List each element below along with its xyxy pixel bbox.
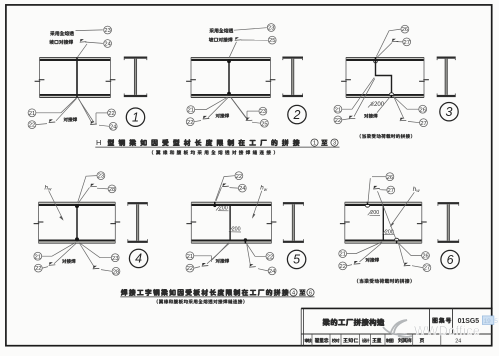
svg-text:27: 27 [404,40,410,46]
detail 1 note: full-penetration butt weld [49,31,73,44]
label butt weld detail3 [364,114,377,118]
callout 28 top [108,185,116,193]
svg-text:22: 22 [340,264,346,270]
dimension 200 mid detail6 [382,229,394,235]
callout 24 top detail5 [238,184,246,192]
svg-text:22: 22 [236,174,242,180]
detail 3 staggered web splice [374,57,394,97]
caption row 2: welded I-beam factory splices 4 to 6 [120,289,314,297]
detail 1 bottom weld symbols [49,119,97,124]
callout 26 top detail6 [386,173,394,181]
detail number 3 [440,103,458,121]
svg-text:23: 23 [98,174,104,180]
detail 2 note: full-penetration butt weld [209,28,233,41]
svg-text:23: 23 [260,109,266,115]
detail 6 I-section view [438,202,460,243]
title block outline [301,308,492,345]
svg-text:1: 1 [132,111,139,125]
svg-text:24: 24 [110,124,116,130]
svg-text:23: 23 [112,256,118,262]
detail 5 break marks [186,222,276,224]
detail number 4 [129,249,147,267]
detail 5 top weld symbol [222,184,229,187]
callout 24 [104,40,112,48]
detail 1 I-section view [124,57,147,98]
detail 2 top weld symbol [235,37,242,40]
svg-text:26: 26 [402,27,408,33]
dimension 200 mid detail5 [229,227,241,233]
watermark swoosh [383,320,412,337]
svg-text:22: 22 [187,266,193,272]
svg-text:21: 21 [187,254,193,260]
detail 6 bottom weld symbols [354,261,411,266]
callout 24 bottom right detail5 [268,267,276,275]
svg-text:19: 19 [484,318,492,325]
detail number 1 [126,108,144,126]
svg-text:23: 23 [268,26,274,32]
dimension 200 top detail6 [368,210,380,216]
label butt weld detail4 [62,259,75,263]
detail 5 bottom leaders [194,243,268,271]
svg-text:26: 26 [422,254,428,260]
svg-text:26: 26 [420,107,426,113]
detail 6 web splice line [382,205,384,240]
label hw detail5 [252,185,268,219]
svg-text:22: 22 [187,120,193,126]
svg-text:4: 4 [292,291,295,297]
callout 23 top detail4 [97,172,105,180]
callout 22 top detail5 [235,172,243,180]
detail 1 bottom leaders [36,98,109,126]
svg-text:1: 1 [313,141,316,147]
detail 1 top weld symbol [80,39,87,42]
svg-text:5: 5 [494,318,498,325]
svg-text:3: 3 [333,141,336,147]
detail 6 top flange splice with weld access arc [365,202,369,207]
svg-text:27: 27 [424,266,430,272]
detail 2 break marks [186,80,275,82]
detail 1 break marks [35,80,116,82]
svg-text:WWDoffice: WWDoffice [414,324,480,338]
detail 1 beam elevation [40,57,111,97]
detail 6 top leaders [368,177,396,240]
detail 3 bottom weld symbols [349,116,407,121]
callout 23 bottom detail4 [111,254,119,262]
detail number 6 [441,250,459,268]
callout 22 detail4 [34,264,42,272]
label butt weld [64,117,77,121]
svg-text:27: 27 [420,121,426,127]
detail 4 I-section view [127,202,147,243]
detail 6 top weld symbol [373,186,380,189]
svg-text:21: 21 [29,111,35,117]
svg-text:21: 21 [335,107,341,113]
detail 4 beam elevation [39,202,116,243]
svg-text:24: 24 [269,269,275,275]
svg-text:24: 24 [104,42,110,48]
label atlas number [432,318,451,324]
callout 25 top [268,36,276,44]
detail 4 top weld symbol [90,184,97,187]
svg-text:25: 25 [269,38,275,44]
svg-text:23: 23 [104,28,110,34]
svg-text:22: 22 [35,266,41,272]
label butt weld detail6 [366,258,379,262]
detail 4 bottom weld symbols [49,262,100,269]
svg-text:22: 22 [267,254,273,260]
svg-text:28: 28 [113,269,119,275]
callout 23 [104,26,112,34]
svg-text:H: H [96,138,101,147]
svg-text:6: 6 [309,291,312,297]
callout 26 bottom detail6 [422,252,430,260]
svg-text:27: 27 [388,188,394,194]
svg-text:2: 2 [293,108,301,122]
svg-text:28: 28 [109,187,115,193]
svg-text:22: 22 [335,118,341,124]
detail 3 top leaders [376,29,402,57]
detail 5 bottom weld symbols [202,263,256,267]
detail 2 top leaders [229,28,267,58]
detail 4 bottom leaders [42,242,112,271]
caption row 1: H-beam factory splices 1 to 3 [95,138,339,147]
detail 3 top weld symbol [392,39,399,42]
label butt weld detail5 [216,259,229,263]
svg-text:25: 25 [261,121,267,127]
detail 6 bottom flange splice with weld access arc [394,238,398,243]
callout 21 detail3 [334,105,342,113]
detail 2 beam elevation [191,57,271,97]
detail 2 web splice weld line with end dots [227,59,231,95]
detail 3 break marks [341,80,429,82]
callout 27 top [403,38,411,46]
detail 6 break marks [340,222,427,224]
svg-text:24: 24 [455,338,461,344]
title block bottom row labels and names [305,338,462,344]
callout 23 detail2 [267,24,275,32]
svg-text:4: 4 [135,252,142,266]
label hw detail6 [390,186,421,227]
detail 1 top leaders [76,30,103,58]
callout 21 detail2 [187,106,195,114]
detail number 5 [287,250,305,268]
callout 22 detail3 [334,116,342,124]
detail 5 top flange splice tick [213,202,216,207]
svg-text:26: 26 [387,175,393,181]
blue selection highlight [482,316,498,325]
svg-text:21: 21 [35,254,41,260]
svg-text:6: 6 [447,253,454,267]
detail 3 bottom leaders [342,78,419,123]
svg-text:5: 5 [293,253,300,267]
svg-text:3: 3 [446,105,453,119]
callout 26 top [401,25,409,33]
callout 21 detail4 [34,252,42,260]
detail 5 web splice line [229,205,231,240]
title: factory splice construction of beams [323,319,384,326]
detail 3 I-section view [437,57,456,98]
svg-text:22: 22 [29,123,35,129]
dimension >=200 [368,101,385,108]
callout 27 bottom detail6 [423,264,431,272]
callout 21 detail5 [186,252,194,260]
callout 27 top detail6 [387,186,395,194]
callout 27 bottom [420,119,428,127]
callout 26 bottom [419,105,427,113]
callout 24 bottom right [109,122,117,130]
callout 21 [28,109,36,117]
detail 4 web splice weld line with dots [75,204,79,241]
callout 23 bottom right detail2 [259,107,267,115]
svg-text:21: 21 [188,108,194,114]
svg-text:21: 21 [340,252,346,258]
detail 1 web splice weld line [76,57,78,97]
note: splice for dynamic loads detail3 [360,134,412,138]
caption row 2 sub-note [157,299,245,303]
detail 2 bottom leaders [194,97,260,123]
callout 22 bottom detail5 [186,264,194,272]
detail 5 bottom flange splice tick [244,238,247,243]
callout 22 right [108,109,116,117]
detail 6 beam elevation [345,202,422,243]
detail 4 top leaders [78,176,108,204]
detail 5 beam elevation [191,202,271,243]
detail 5 I-section view [283,202,304,243]
callout 22 detail6 [339,262,347,270]
detail 2 bottom weld symbols [203,116,253,121]
callout 25 bottom right detail2 [261,119,269,127]
svg-text:22: 22 [108,111,114,117]
callout 22 detail2 [186,118,194,126]
detail 3 beam elevation [346,57,424,97]
callout 22 left [28,121,36,129]
detail 6 bottom leaders [347,242,423,268]
callout 21 detail6 [339,250,347,258]
dimension 200 top detail5 [216,206,229,212]
detail 5 top leaders [215,176,238,201]
svg-text:24: 24 [239,186,245,192]
label hw detail4 [45,184,64,220]
label butt weld detail2 [216,114,229,118]
callout 28 bottom [112,267,120,275]
caption row 1 sub-note [152,150,275,154]
detail 2 I-section view [282,57,303,98]
detail number 2 [288,105,306,123]
note: splice for dynamic loads detail6 [357,279,412,283]
detail 4 break marks [34,222,121,224]
callout 22 bottom right detail5 [266,252,274,260]
